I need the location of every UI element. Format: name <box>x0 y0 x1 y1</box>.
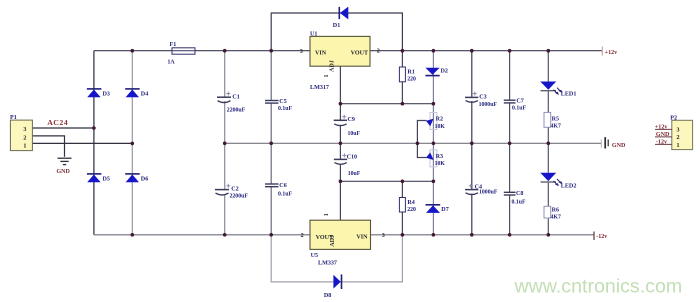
svg-text:F1: F1 <box>170 42 177 48</box>
junction dot C3 top rail <box>470 49 474 53</box>
svg-text:AC24: AC24 <box>47 118 68 127</box>
junction dot pots mid rail <box>432 142 436 146</box>
svg-text:-12v: -12v <box>596 234 608 240</box>
wire R4 vertical <box>401 181 403 235</box>
svg-text:1: 1 <box>324 74 330 77</box>
potentiometer R3 <box>426 150 437 167</box>
connector P1 <box>10 115 32 150</box>
wire top rail left VIN side <box>94 50 310 52</box>
capacitor C9 <box>334 115 347 126</box>
svg-text:0.1uF: 0.1uF <box>512 106 526 112</box>
wire U5 ADJ pin to lower ADJ rail <box>339 181 341 220</box>
wire C5 C6 vertical <box>270 51 272 235</box>
svg-text:U5: U5 <box>311 253 318 259</box>
svg-text:10K: 10K <box>435 161 446 167</box>
diode D6 <box>125 174 148 183</box>
wire bottom rail left <box>94 234 310 236</box>
wire P2 pin2 stub <box>655 136 672 138</box>
wire P1 pin1 to AC node <box>32 142 132 144</box>
capacitor C10 <box>334 153 347 164</box>
junction dot lower ADJ rail at R3 <box>432 180 436 184</box>
svg-text:C7: C7 <box>516 99 523 105</box>
svg-text:D5: D5 <box>103 177 110 183</box>
svg-text:U1: U1 <box>310 32 317 38</box>
junction dot LED1 top rail <box>547 49 551 53</box>
capacitor C4 <box>465 184 478 195</box>
junction dot D1 left on top rail <box>269 49 273 53</box>
resistor R4 <box>399 198 405 213</box>
svg-text:0.1uF: 0.1uF <box>278 192 292 198</box>
terminal +12v <box>602 47 618 57</box>
svg-text:2: 2 <box>377 49 380 55</box>
junction dot R5 LED2 mid rail <box>547 142 551 146</box>
svg-text:C2: C2 <box>231 187 238 193</box>
svg-text:VIN: VIN <box>356 235 368 241</box>
junction dot C4 bottom rail <box>470 233 474 237</box>
svg-text:3: 3 <box>677 128 680 134</box>
svg-text:R2: R2 <box>436 117 443 123</box>
svg-text:1000uF: 1000uF <box>479 190 498 196</box>
svg-text:10uF: 10uF <box>348 131 361 137</box>
wire pot R3 wiper <box>417 143 426 157</box>
junction dot ADJ rail at C9 <box>339 102 343 106</box>
svg-text:C3: C3 <box>479 95 486 101</box>
svg-text:P1: P1 <box>10 115 17 121</box>
svg-text:R5: R5 <box>552 117 559 123</box>
svg-text:LED2: LED2 <box>561 183 577 189</box>
svg-text:+12v: +12v <box>605 50 619 56</box>
regulator U1 LM317 <box>300 32 380 78</box>
wire top rail right VOUT to +12v <box>370 50 602 52</box>
junction dot lower ADJ rail at R4 <box>401 180 405 184</box>
capacitor C6 <box>265 184 279 187</box>
fuse F1 <box>172 48 195 54</box>
svg-text:3: 3 <box>300 49 303 55</box>
svg-text:4K7: 4K7 <box>551 214 561 220</box>
diode D2 <box>425 68 448 76</box>
junction dot AC2 node <box>131 142 135 146</box>
diode D1 <box>333 7 349 30</box>
wire D8 bypass loop <box>271 235 402 282</box>
svg-text:D2: D2 <box>441 68 448 74</box>
capacitor C2 <box>215 184 230 195</box>
resistor R1 <box>399 67 405 82</box>
svg-text:D4: D4 <box>141 92 148 98</box>
wire mid GND rail <box>225 142 601 144</box>
wire C3 C4 vertical <box>471 51 473 235</box>
LED LED1 <box>540 82 562 96</box>
svg-text:LM337: LM337 <box>318 261 337 267</box>
resistor R5 <box>544 112 551 127</box>
wire pot R2 wiper <box>417 121 426 144</box>
svg-text:2200uF: 2200uF <box>227 107 246 113</box>
junction dot D4 top rail <box>131 49 135 53</box>
svg-text:D6: D6 <box>141 177 148 183</box>
svg-text:-12v: -12v <box>656 139 668 145</box>
svg-text:ADJ: ADJ <box>330 235 336 247</box>
junction dot lower ADJ rail at C10 <box>339 180 343 184</box>
junction dot C2 bottom rail <box>223 233 227 237</box>
junction dot wiper mid rail <box>416 142 420 146</box>
svg-text:3: 3 <box>23 127 26 133</box>
svg-text:C10: C10 <box>347 154 358 160</box>
terminal -12v <box>594 232 608 241</box>
wire P2 pin1 stub <box>655 143 672 145</box>
svg-text:3: 3 <box>382 233 385 239</box>
svg-text:0.1uF: 0.1uF <box>278 106 292 112</box>
svg-text:10K: 10K <box>435 124 446 130</box>
svg-text:VIN: VIN <box>315 50 327 56</box>
capacitor C1 <box>217 92 231 103</box>
diode D4 <box>125 89 148 98</box>
capacitor C8 <box>504 192 516 195</box>
junction dot C3 C4 mid rail <box>470 142 474 146</box>
regulator U5 LM337 <box>301 213 385 249</box>
svg-text:1A: 1A <box>168 60 176 66</box>
wire C7 C8 vertical <box>509 51 511 235</box>
svg-text:C9: C9 <box>348 117 355 123</box>
diode D7 <box>426 205 449 213</box>
svg-text:R4: R4 <box>407 200 414 206</box>
junction dot D7 bottom rail <box>432 233 436 237</box>
svg-text:GND: GND <box>656 132 670 138</box>
resistor R6 <box>544 206 551 218</box>
connector P2 <box>670 116 692 150</box>
terminal GND <box>601 137 626 149</box>
diode D8 <box>324 274 342 299</box>
wire P2 pin3 stub <box>655 128 672 130</box>
svg-text:2200uF: 2200uF <box>230 194 249 200</box>
capacitor C7 <box>504 100 516 103</box>
wire bridge right vertical (D4 D6) <box>131 51 133 235</box>
svg-text:LM317: LM317 <box>310 85 329 91</box>
junction dot AC1 node <box>92 126 96 130</box>
junction dot D1 right on top rail <box>401 49 405 53</box>
svg-text:2: 2 <box>301 233 304 239</box>
wire C9 C10 vertical <box>339 104 341 182</box>
wire U1 ADJ pin to ADJ rail <box>339 66 341 104</box>
svg-text:220: 220 <box>407 207 416 213</box>
wire upper ADJ rail <box>340 103 433 105</box>
wire R1 vertical <box>401 51 403 104</box>
capacitor C3 <box>465 92 478 103</box>
junction dot D2 top rail <box>432 49 436 53</box>
svg-text:www.cntronics.com: www.cntronics.com <box>514 275 683 297</box>
svg-text:220: 220 <box>407 77 416 83</box>
svg-text:D3: D3 <box>103 92 110 98</box>
svg-text:C1: C1 <box>232 94 239 100</box>
junction dot C7 top rail <box>508 49 512 53</box>
svg-text:P2: P2 <box>670 116 677 122</box>
junction dot ADJ rail at R2 <box>432 102 436 106</box>
svg-text:1000uF: 1000uF <box>479 102 498 108</box>
junction dot C5 C6 mid rail <box>269 142 273 146</box>
diode D3 <box>87 89 110 98</box>
junction dot C9 C10 mid rail <box>339 142 343 146</box>
diode D5 <box>87 174 110 183</box>
wire LED1 R5 LED2 R6 vertical <box>547 51 549 235</box>
svg-text:R6: R6 <box>552 208 559 214</box>
junction dot C1 C2 mid rail <box>223 142 227 146</box>
svg-text:1: 1 <box>23 144 26 150</box>
junction dot ADJ rail at R1 <box>401 102 405 106</box>
wire D1 bypass loop <box>271 13 402 51</box>
svg-text:C8: C8 <box>516 191 523 197</box>
svg-text:C5: C5 <box>279 99 286 105</box>
svg-text:D1: D1 <box>333 23 340 29</box>
svg-text:2: 2 <box>677 135 680 141</box>
svg-text:+12v: +12v <box>655 124 669 130</box>
LED LED2 <box>540 173 562 187</box>
potentiometer R2 <box>426 113 437 130</box>
svg-text:0.1uF: 0.1uF <box>512 200 526 206</box>
svg-text:1: 1 <box>677 143 680 149</box>
svg-text:4K7: 4K7 <box>551 124 561 130</box>
wire D2 R2 R3 D7 vertical <box>432 51 434 235</box>
capacitor C5 <box>265 101 279 104</box>
svg-text:1: 1 <box>324 213 330 216</box>
svg-text:10uF: 10uF <box>348 171 361 177</box>
svg-text:D7: D7 <box>441 207 448 213</box>
svg-text:VOUT: VOUT <box>351 50 368 56</box>
svg-text:GND: GND <box>612 143 626 149</box>
junction dot D6 bottom rail <box>131 233 135 237</box>
wire P1 pin3 to AC node <box>32 127 94 129</box>
wire lower ADJ rail <box>340 180 433 182</box>
ground earth symbol <box>57 158 72 175</box>
svg-text:2: 2 <box>23 136 26 142</box>
junction dot R6 bottom rail <box>547 233 551 237</box>
svg-text:R1: R1 <box>407 70 414 76</box>
svg-text:LED1: LED1 <box>561 92 577 98</box>
svg-text:ADJ: ADJ <box>330 60 336 72</box>
wire P1 pin2 to earth <box>32 136 64 157</box>
svg-text:C6: C6 <box>279 183 286 189</box>
svg-text:GND: GND <box>57 169 71 175</box>
wire C1 C2 vertical <box>224 51 226 235</box>
svg-text:D8: D8 <box>324 293 331 299</box>
junction dot C6 bottom rail <box>269 233 273 237</box>
junction dot C1 top rail <box>223 49 227 53</box>
junction dot C7 C8 mid rail <box>508 142 512 146</box>
junction dot C8 bottom rail <box>508 233 512 237</box>
svg-text:R3: R3 <box>436 154 443 160</box>
wire bottom rail right to -12v <box>371 234 595 236</box>
junction dot D8 right bottom rail <box>401 233 405 237</box>
wire bridge left vertical (D3 D5) <box>93 51 95 235</box>
